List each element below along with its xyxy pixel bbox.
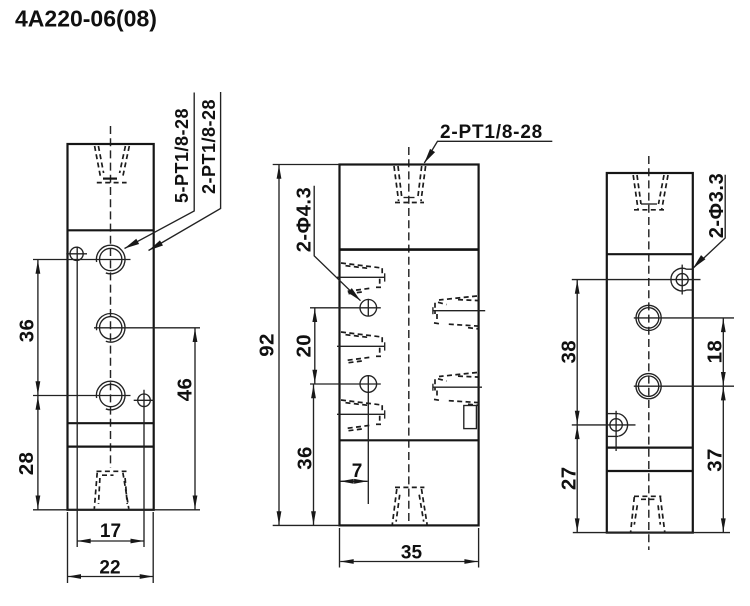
bottom coil plug (hidden trapezoid, right view)	[631, 496, 665, 532]
base parting line lower (right view)	[607, 470, 693, 472]
svg-text:17: 17	[100, 521, 121, 542]
base parting line upper	[68, 422, 154, 424]
base parting line (side view)	[340, 439, 479, 441]
solenoid parting line (side view)	[340, 248, 479, 251]
hidden port slot B (side view left, middle)	[337, 332, 385, 363]
top coil plug (hidden, dashed trapezoid)	[95, 146, 130, 183]
pilot screw hole M2 (side view)	[310, 375, 381, 504]
dim 18 (right view port spacing)	[704, 318, 727, 386]
port Q1 horizontal centerline / 18-dim extension	[634, 317, 734, 319]
leader label 2-PT1/8-28 (top pilot port)	[422, 122, 553, 165]
svg-text:36: 36	[16, 319, 39, 343]
dim 7 (edge to screw line)	[340, 461, 367, 484]
centerline (right view vertical axis)	[648, 156, 650, 550]
solenoid parting line (right view)	[607, 253, 693, 255]
valve body outline (front view)	[68, 144, 154, 510]
dim 35 (side view depth)	[340, 528, 479, 568]
screw hole S2 centerline extended (17-dim extension)	[143, 390, 145, 547]
svg-text:2-Φ4.3: 2-Φ4.3	[294, 187, 316, 253]
svg-text:18: 18	[704, 340, 727, 364]
svg-text:28: 28	[15, 452, 38, 476]
screw B2 horizontal centerline / 27-dim extension	[572, 424, 636, 426]
svg-text:2-PT1/8-28: 2-PT1/8-28	[199, 99, 219, 194]
svg-text:7: 7	[352, 461, 363, 482]
mounting screw hole S2 (bottom right)	[134, 394, 155, 407]
dim 27 (right view)	[558, 425, 581, 533]
bottom coil plug (hidden trapezoid, side view)	[392, 487, 427, 524]
hidden port slot R1 (side view right, upper)	[433, 296, 485, 329]
bottom face extension line (shared by 28 and 46)	[33, 509, 200, 511]
port hole Q1 (right view upper)	[636, 305, 661, 330]
svg-text:92: 92	[256, 333, 279, 357]
dim 46 (front view)	[174, 328, 198, 510]
svg-text:36: 36	[294, 446, 317, 470]
svg-text:2-PT1/8-28: 2-PT1/8-28	[440, 122, 543, 143]
port P1 horizontal centerline / 36-dim extension	[33, 259, 131, 261]
top coil plug (hidden trapezoid, right view)	[633, 175, 668, 210]
svg-text:5-PT1/8-28: 5-PT1/8-28	[172, 108, 192, 203]
dim 92 (side view overall height)	[256, 165, 340, 526]
leader label 5-PT1/8-28 (front view ports)	[123, 93, 194, 252]
centerline (side view vertical axis)	[408, 147, 410, 525]
leader label 2-PT1/8-28 (front view, side ports)	[147, 92, 221, 253]
port P2 threaded hole (middle)	[96, 314, 125, 343]
hidden port slot R2 (side view right, lower)	[433, 373, 482, 406]
hidden port slot C (side view left, bottom)	[337, 400, 385, 431]
svg-text:35: 35	[401, 543, 423, 564]
port P1 threaded hole (top)	[96, 245, 125, 274]
port Q2 horizontal centerline / 37-dim extension	[634, 385, 734, 387]
solenoid/body parting line	[68, 229, 154, 231]
dim 37 (right view)	[704, 386, 727, 532]
port hole Q2 (right view lower)	[636, 374, 661, 399]
side exhaust notch (solid rectangle, right edge)	[464, 406, 477, 429]
svg-text:4A220-06(08): 4A220-06(08)	[15, 6, 157, 32]
counterbored screw hole B2 (right view bottom)	[607, 411, 628, 451]
mounting screw hole S1 (top left)	[66, 247, 87, 260]
valve body outline (side view)	[340, 165, 479, 526]
leader label 2-Phi4.3 (pilot screw holes)	[294, 186, 363, 303]
screw hole S1 centerline extended (17-dim extension)	[76, 247, 78, 548]
base parting line lower	[68, 446, 154, 448]
pilot screw hole M1 (side view)	[310, 299, 381, 317]
dim 20 (pilot screw spacing)	[292, 308, 317, 384]
dim 38 (right view)	[558, 280, 581, 425]
dim 36 (side view, lower screw to base)	[294, 384, 317, 525]
dim 28 (front view)	[15, 396, 40, 510]
valve body outline (right view)	[607, 173, 693, 533]
base parting line upper (right view)	[607, 447, 693, 449]
svg-text:20: 20	[292, 334, 315, 358]
hidden port slot A (side view left, top)	[337, 263, 385, 294]
dim 22 (body width)	[68, 512, 154, 583]
top coil plug (hidden trapezoid, side view)	[394, 166, 426, 203]
svg-text:22: 22	[99, 558, 120, 579]
bottom face extension line (right view)	[573, 532, 730, 534]
leader label 2-Phi3.3 (counterbored screw holes)	[691, 173, 728, 271]
port P2 horizontal centerline / 46-dim extension	[94, 327, 200, 329]
svg-text:46: 46	[174, 378, 197, 402]
port P3 threaded hole (bottom)	[96, 381, 125, 410]
counterbored screw hole B1 (right view top)	[671, 265, 693, 295]
svg-text:37: 37	[704, 448, 727, 472]
port P3 horizontal centerline / 28-dim extension	[33, 395, 131, 397]
dim 36 (front view, port spacing)	[16, 260, 41, 396]
svg-text:38: 38	[558, 340, 581, 364]
centerline (front view vertical axis)	[110, 126, 112, 468]
svg-text:27: 27	[558, 466, 581, 490]
screw B1 horizontal centerline / 38-dim extension	[572, 279, 701, 281]
dim 17 (screw hole spacing)	[77, 521, 144, 543]
bottom coil plug (hidden, dashed trapezoid)	[94, 471, 129, 509]
